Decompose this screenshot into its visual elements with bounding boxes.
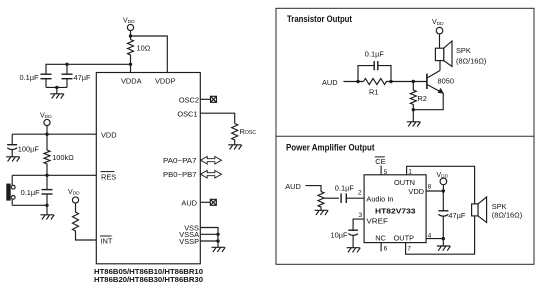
OSC2 pin wire — [200, 98, 210, 100]
wire VDD to VDDP — [129, 34, 168, 72]
ground under reset cap — [41, 205, 55, 219]
svg-text:8: 8 — [428, 183, 432, 190]
svg-text:VDDP: VDDP — [155, 77, 176, 86]
resistor AUD load — [318, 192, 339, 211]
svg-text:OSC2: OSC2 — [179, 96, 199, 105]
PA0~PA7 bus arrow — [201, 156, 222, 164]
svg-text:NC: NC — [375, 234, 386, 243]
svg-text:5: 5 — [384, 169, 388, 176]
svg-text:VDD: VDD — [101, 130, 117, 139]
svg-text:(8Ω/16Ω): (8Ω/16Ω) — [492, 210, 522, 219]
pin 3 vref wire — [353, 212, 364, 230]
capacitor 0.1uF box2 — [335, 183, 364, 203]
OSC2 pad symbol — [211, 96, 217, 102]
pin 1 wire to speaker loop — [406, 166, 475, 254]
svg-text:Power Amplifier Output: Power Amplifier Output — [286, 142, 375, 152]
ground under Rosc — [228, 145, 242, 150]
svg-text:Transistor Output: Transistor Output — [287, 14, 352, 24]
svg-text:OSC1: OSC1 — [177, 109, 197, 118]
resistor 100k — [44, 134, 74, 175]
svg-text:100kΩ: 100kΩ — [52, 153, 74, 162]
svg-text:OUTP: OUTP — [394, 234, 415, 243]
main MCU block U1 — [96, 73, 200, 264]
pin 6 NC stub — [381, 243, 388, 253]
speaker SPK box1 — [435, 41, 486, 67]
VDD supply symbol mid — [40, 113, 52, 135]
pin 5 CE — [375, 157, 388, 176]
svg-text:INT: INT — [101, 236, 113, 245]
pin 8 VDD wire — [426, 183, 445, 192]
svg-text:0.1µF: 0.1µF — [21, 188, 41, 197]
node AUD box1 — [322, 78, 364, 87]
svg-text:6: 6 — [384, 246, 388, 253]
amplifier U2 HT82V733 — [364, 175, 426, 243]
resistor INT pull-up — [73, 203, 97, 240]
title power amplifier output — [286, 142, 375, 152]
svg-text:47µF: 47µF — [74, 73, 91, 82]
svg-text:Audio In: Audio In — [366, 195, 393, 204]
AUD pad symbol — [210, 199, 216, 205]
ground under AUD resistor — [315, 210, 329, 215]
AUD pin wire — [200, 201, 210, 203]
title transistor output — [287, 14, 352, 24]
ground under 10uF — [347, 248, 361, 253]
wire RES pin — [12, 174, 96, 177]
svg-text:R2: R2 — [417, 94, 426, 103]
svg-text:HT82V733: HT82V733 — [375, 206, 416, 215]
wire caps bottom — [46, 86, 67, 89]
svg-text:0.1µF: 0.1µF — [365, 50, 385, 59]
pin 4 wire — [426, 232, 445, 240]
svg-text:8050: 8050 — [438, 77, 454, 86]
resistor Rosc — [232, 124, 257, 145]
svg-text:2: 2 — [358, 189, 362, 196]
svg-text:47µF: 47µF — [448, 211, 465, 220]
svg-text:RES: RES — [101, 173, 116, 182]
svg-text:10Ω: 10Ω — [137, 43, 151, 52]
ground under 47uF — [437, 239, 451, 251]
svg-text:SPK: SPK — [456, 46, 471, 55]
svg-text:0.1µF: 0.1µF — [335, 183, 355, 192]
emitter wire loop — [412, 93, 444, 111]
VDD supply symbol top — [123, 18, 135, 40]
svg-text:VREF: VREF — [366, 216, 388, 225]
svg-text:(8Ω/16Ω): (8Ω/16Ω) — [456, 56, 486, 65]
pin 2 audio in — [358, 189, 362, 196]
VDD supply symbol box1 — [432, 19, 444, 48]
resistor R1 — [364, 79, 392, 97]
svg-text:10µF: 10µF — [331, 231, 348, 240]
OSC1 wire to Rosc — [200, 113, 234, 123]
ground under caps — [50, 87, 64, 98]
node AUD box2 — [285, 182, 321, 191]
wire to base — [391, 80, 427, 83]
transistor Q1 8050 — [427, 71, 454, 94]
wire VDD pin — [12, 133, 96, 136]
VSS VSSA VSSP rail — [200, 228, 219, 243]
svg-text:VSSP: VSSP — [179, 237, 199, 246]
svg-text:PA0~PA7: PA0~PA7 — [163, 156, 197, 165]
ground under VSS rail — [212, 241, 226, 252]
wire to decoupling caps — [46, 63, 131, 74]
svg-text:VDDA: VDDA — [121, 77, 142, 86]
svg-text:R1: R1 — [369, 88, 378, 97]
svg-text:VDD: VDD — [408, 187, 424, 196]
collector wire — [439, 61, 441, 71]
ground under 100uF — [6, 157, 20, 162]
pushbutton switch — [6, 175, 47, 205]
VDD supply symbol box2 — [437, 172, 449, 191]
svg-text:0.1µF: 0.1µF — [20, 73, 40, 82]
svg-text:AUD: AUD — [181, 198, 197, 207]
VDD supply symbol INT — [68, 189, 80, 203]
resistor 10ohm — [128, 40, 151, 73]
svg-text:CE: CE — [375, 157, 385, 166]
resistor R2 — [410, 82, 427, 110]
application boxes frame — [276, 8, 534, 264]
svg-text:3: 3 — [359, 212, 363, 219]
ground under R2 — [407, 110, 421, 127]
svg-text:1: 1 — [408, 168, 412, 175]
capacitor 47uF box2 — [438, 191, 465, 239]
capacitor 0.1uF reset — [21, 175, 53, 207]
part number label — [94, 267, 203, 284]
svg-text:PB0~PB7: PB0~PB7 — [163, 170, 197, 179]
capacitor 0.1uF box1 — [358, 50, 393, 84]
PB0~PB7 bus arrow — [201, 170, 222, 178]
svg-text:100µF: 100µF — [18, 144, 40, 153]
capacitor 100uF — [7, 134, 39, 157]
capacitor 0.1uF — [20, 73, 52, 87]
capacitor 47uF — [62, 73, 91, 87]
speaker SPK box2 — [472, 197, 523, 223]
svg-text:AUD: AUD — [322, 78, 338, 87]
svg-text:AUD: AUD — [285, 182, 301, 191]
svg-text:HT86B20/HT86B30/HT86BR30: HT86B20/HT86B30/HT86BR30 — [94, 275, 203, 284]
svg-text:4: 4 — [428, 232, 432, 239]
capacitor 10uF — [331, 230, 359, 248]
svg-text:7: 7 — [407, 246, 411, 253]
